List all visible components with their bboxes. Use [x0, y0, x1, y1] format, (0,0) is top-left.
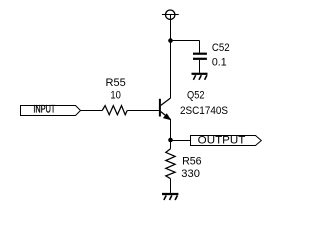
- svg-text:R56: R56: [182, 156, 202, 168]
- svg-text:10: 10: [110, 90, 121, 102]
- svg-text:C52: C52: [212, 42, 230, 54]
- svg-text:R55: R55: [106, 77, 126, 89]
- svg-text:2SC1740S: 2SC1740S: [180, 105, 228, 117]
- svg-text:INPUT: INPUT: [33, 103, 55, 115]
- svg-text:OUTPUT: OUTPUT: [198, 135, 246, 147]
- svg-text:Q52: Q52: [187, 90, 205, 102]
- svg-text:330: 330: [181, 168, 200, 180]
- svg-text:0.1: 0.1: [212, 57, 227, 69]
